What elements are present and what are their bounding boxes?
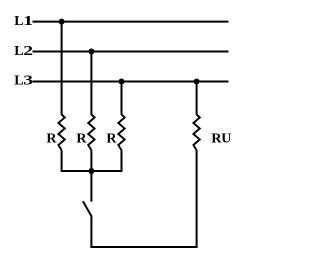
wire bus to switch top contact — [90, 171, 92, 202]
wire L1 — [33, 21, 229, 23]
wire branch 2 from L2 to resistor R top — [90, 52, 92, 115]
svg-text:R: R — [76, 132, 87, 147]
svg-text:2: 2 — [23, 42, 33, 58]
wire L3 — [33, 81, 229, 83]
net label L3 — [14, 72, 33, 88]
wire RU bottom riser — [196, 150, 198, 248]
svg-text:U: U — [221, 132, 231, 147]
svg-text:R: R — [106, 132, 117, 147]
junction on L1 at branch 1 — [59, 19, 65, 25]
resistor RU (branch 4) — [193, 115, 199, 151]
resistor R (branch 3) — [118, 115, 124, 151]
wire branch 1 from L1 to resistor R top — [61, 22, 63, 115]
switch blade (open) — [83, 201, 92, 217]
value label RU (branch 4) — [211, 132, 231, 147]
wire bottom bus joining three resistors — [61, 170, 123, 172]
wire resistor R3 bottom to bus — [121, 150, 123, 171]
resistor R (branch 2) — [88, 115, 94, 151]
junction on L3 at branch RU — [194, 79, 200, 85]
svg-text:1: 1 — [23, 13, 33, 28]
junction on L2 at branch 2 — [88, 49, 94, 55]
wire branch 3 from L3 to resistor R top — [121, 82, 123, 115]
resistor R (branch 1) — [58, 115, 64, 151]
wire L2 — [33, 51, 229, 53]
wire branch 4 from L3 to resistor RU top — [196, 82, 198, 115]
net label L1 — [14, 13, 33, 29]
wire bottom run to RU branch — [90, 246, 197, 248]
junction on bus — [88, 168, 94, 174]
svg-text:L: L — [14, 74, 23, 89]
wire switch bottom contact down — [90, 217, 92, 248]
svg-text:L: L — [14, 44, 23, 59]
junction on L3 at branch 3 — [119, 79, 125, 85]
net label L2 — [14, 42, 33, 58]
svg-text:3: 3 — [23, 72, 33, 88]
wire resistor R2 bottom to bus — [90, 150, 92, 171]
svg-text:R: R — [46, 132, 57, 147]
wire resistor R1 bottom to bus — [61, 150, 63, 171]
